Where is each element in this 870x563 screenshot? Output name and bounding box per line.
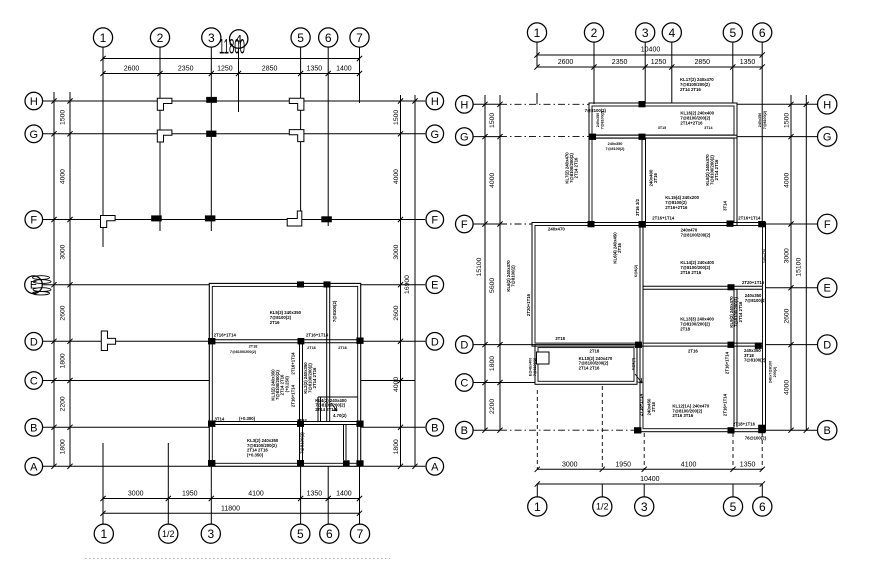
column (2,G) filled rp — [589, 134, 596, 140]
svg-text:2T16: 2T16 — [653, 172, 658, 182]
svg-text:6: 6 — [759, 26, 766, 40]
column (2,F) filled rp — [588, 221, 595, 227]
column (3,A) filled — [208, 460, 215, 466]
svg-text:H: H — [823, 99, 831, 111]
svg-text:2600: 2600 — [393, 305, 400, 320]
svg-text:2T20+1T16: 2T20+1T16 — [742, 280, 765, 285]
svg-text:E: E — [824, 283, 831, 295]
column (3,F) filled rp — [639, 221, 646, 228]
column (5,D) filled — [298, 338, 305, 344]
bottom dim line (right plan) — [537, 468, 762, 470]
grid line 1/2 bottom (left plan) — [167, 443, 169, 524]
row bubble G (left plan right) — [426, 125, 444, 143]
row line F dashed (right plan) — [473, 223, 500, 225]
svg-text:1400: 1400 — [336, 66, 352, 73]
row bubble C (left plan left) — [25, 372, 43, 390]
svg-text:7@8100(2): 7@8100(2) — [601, 110, 605, 129]
grid bubble 1 (right plan top) — [527, 23, 546, 42]
svg-text:2850: 2850 — [262, 66, 278, 73]
svg-text:2200: 2200 — [60, 396, 67, 411]
row bubble D (right plan left) — [456, 336, 474, 354]
svg-text:C: C — [460, 378, 468, 390]
row line H (left plan) — [43, 100, 426, 102]
svg-text:76@100(2): 76@100(2) — [745, 436, 767, 441]
row bubble E with scribble (left plan left) — [25, 276, 43, 294]
svg-text:E@4bx400: E@4bx400 — [529, 358, 533, 377]
svg-text:11800: 11800 — [221, 505, 240, 512]
column (5,D) filled rp — [728, 342, 735, 348]
column (2,H) L-shape — [157, 98, 172, 110]
left building interior wall B-A at grid6 — [343, 425, 345, 461]
column (6,E) filled — [324, 281, 331, 287]
svg-text:4000: 4000 — [393, 377, 400, 392]
left dim chain lines (right plan) — [484, 95, 486, 430]
svg-text:2: 2 — [157, 31, 164, 45]
svg-text:4.70(2): 4.70(2) — [333, 413, 347, 418]
row bubble H (right plan left) — [456, 96, 474, 114]
svg-text:3: 3 — [207, 527, 214, 541]
svg-text:5: 5 — [297, 527, 304, 541]
svg-text:2350: 2350 — [612, 59, 628, 66]
grid line 6 bottom (left plan) — [327, 466, 329, 524]
svg-text:7@8100(2): 7@8100(2) — [744, 358, 766, 363]
svg-text:2T16+1T14: 2T16+1T14 — [291, 384, 296, 407]
svg-text:3: 3 — [208, 31, 215, 45]
grid line 1 top (right plan) — [536, 42, 538, 67]
svg-text:6@8(2): 6@8(2) — [634, 264, 638, 277]
svg-text:2T16: 2T16 — [617, 242, 622, 252]
top dim line (right plan) — [537, 54, 762, 56]
svg-text:G: G — [30, 129, 39, 141]
grid bubble 7 (left plan top) — [350, 28, 369, 47]
column (6,B) filled rp — [758, 425, 765, 434]
row bubble F (left plan right) — [426, 211, 444, 229]
grid bubble 5 (left plan top) — [291, 28, 310, 47]
column (3,G) filled rp — [639, 134, 646, 140]
grid line 1/2 bottom dashed (right plan) — [601, 386, 603, 469]
hollow column (D-C wing) — [537, 352, 550, 364]
row line D (left plan) — [43, 340, 210, 342]
section arrow (left building) — [331, 403, 337, 411]
svg-text:4: 4 — [668, 26, 675, 40]
column (3,H) filled — [206, 97, 217, 103]
svg-text:7@8100(2): 7@8100(2) — [606, 147, 626, 151]
svg-text:H: H — [431, 96, 439, 108]
left building interior wall D row — [212, 339, 357, 341]
grid bubble 7 (left plan bottom) — [350, 524, 369, 543]
svg-text:1350: 1350 — [307, 66, 323, 73]
grid bubble 4 (left plan top) — [230, 30, 248, 48]
grid bubble 2 (left plan top) — [150, 28, 169, 47]
grid line 7 (left plan) — [359, 47, 361, 103]
svg-text:7@8100(2): 7@8100(2) — [745, 298, 767, 303]
grid bubble 3 (left plan bottom) — [201, 524, 220, 543]
svg-text:1250: 1250 — [217, 66, 233, 73]
column (6,D) filled rp — [755, 343, 762, 349]
column (5,F) filled rp — [727, 221, 734, 227]
row bubble D (left plan right) — [426, 333, 444, 351]
right building interior wall grid3 upper — [641, 138, 643, 222]
column (3,B) filled rp — [634, 427, 641, 433]
row line A (left plan) — [43, 465, 210, 467]
svg-text:A: A — [30, 461, 38, 473]
column (6,F) filled rp — [758, 221, 765, 227]
svg-text:1500: 1500 — [60, 110, 67, 125]
svg-text:F: F — [461, 219, 468, 231]
column (3,B) filled — [208, 421, 215, 427]
row bubble E (left plan right) — [426, 276, 444, 294]
grid bubble 1 (left plan top) — [93, 28, 112, 47]
grid bubble 6 (right plan bottom) — [753, 497, 772, 516]
column (3,H) filled rp — [639, 101, 646, 107]
svg-text:240x350: 240x350 — [758, 113, 762, 127]
svg-text:240x350: 240x350 — [596, 113, 600, 127]
top dim line (left plan) — [103, 58, 360, 60]
row line D (right plan) — [473, 344, 535, 346]
svg-text:2T16+2T16: 2T16+2T16 — [665, 205, 688, 210]
row line G dashed (right plan) — [473, 136, 500, 138]
svg-text:4000: 4000 — [784, 173, 791, 188]
svg-text:(+0.300): (+0.300) — [239, 416, 256, 421]
row line B (left plan) — [43, 426, 210, 428]
svg-text:5: 5 — [297, 31, 304, 45]
svg-text:6: 6 — [326, 527, 333, 541]
grid bubble 5 (right plan bottom) — [723, 497, 742, 516]
svg-text:2T16 3T16: 2T16 3T16 — [672, 413, 693, 418]
svg-text:1250: 1250 — [651, 59, 667, 66]
svg-text:2850: 2850 — [695, 59, 711, 66]
svg-text:2600: 2600 — [124, 66, 140, 73]
svg-text:B: B — [824, 425, 831, 437]
svg-text:D: D — [460, 340, 468, 352]
right dim chain lines (right plan) — [790, 95, 792, 430]
grid line 5 bottom dashed (right plan) — [732, 433, 734, 469]
svg-text:7@8100/200(2): 7@8100/200(2) — [230, 350, 257, 354]
column (3,F) filled — [205, 215, 216, 221]
svg-text:3000: 3000 — [562, 461, 578, 468]
grid line 3 bottom (left plan) — [210, 466, 212, 524]
row bubble D (right plan right) — [818, 335, 837, 354]
left building interior wall small room — [317, 397, 319, 422]
svg-text:6: 6 — [325, 31, 332, 45]
grid line 6 top (right plan) — [761, 42, 763, 224]
svg-text:24bx7@8100: 24bx7@8100 — [769, 361, 773, 383]
grid bubble 1/2 (right plan bottom) — [593, 497, 612, 516]
svg-text:2: 2 — [591, 26, 598, 40]
svg-text:6: 6 — [759, 500, 766, 514]
left building outer wall — [209, 283, 360, 466]
svg-text:2T16: 2T16 — [270, 320, 280, 325]
svg-text:2T16+1T14: 2T16+1T14 — [725, 351, 730, 374]
right building F-D left wing wall — [532, 223, 643, 347]
row line B dashed (right plan) — [473, 429, 500, 431]
svg-text:2T14 2T16: 2T14 2T16 — [680, 87, 701, 92]
grid bubble 3 (right plan bottom) — [635, 497, 654, 516]
svg-text:240x470: 240x470 — [763, 249, 767, 263]
grid line 5 top (right plan) — [732, 42, 734, 103]
svg-text:7@8100(2): 7@8100(2) — [300, 432, 305, 454]
column (6,F) filled — [321, 216, 332, 222]
svg-text:7@8100/200(2): 7@8100/200(2) — [681, 232, 711, 237]
svg-text:B: B — [461, 425, 468, 437]
svg-text:(+0.350): (+0.350) — [247, 452, 264, 457]
svg-text:1950: 1950 — [182, 491, 198, 498]
svg-text:(+0.250): (+0.250) — [285, 376, 290, 393]
row line G right (right plan) — [737, 136, 818, 138]
bubble stubs bottom (right plan) — [536, 484, 538, 497]
grid bubble 3 (right plan top) — [636, 23, 655, 42]
row bubble F (right plan right) — [818, 214, 837, 233]
svg-text:6@8(2): 6@8(2) — [632, 357, 636, 370]
svg-text:15100: 15100 — [476, 257, 483, 276]
svg-text:4100: 4100 — [681, 461, 697, 468]
column (5,A) filled — [297, 460, 304, 466]
svg-text:1500: 1500 — [489, 113, 496, 128]
column (5,E) filled rp — [728, 284, 735, 290]
svg-text:240x470: 240x470 — [548, 227, 565, 232]
grid bubble 2 (right plan top) — [584, 23, 603, 42]
column (5,B) filled rp — [728, 427, 735, 433]
svg-text:1: 1 — [100, 31, 107, 45]
svg-text:1/2: 1/2 — [162, 529, 175, 539]
svg-text:C: C — [30, 376, 38, 388]
svg-text:4100: 4100 — [248, 491, 264, 498]
svg-text:2600: 2600 — [558, 59, 574, 66]
row line F (left plan) — [43, 219, 426, 221]
row bubble G (right plan right) — [818, 127, 837, 146]
grid line 3 top (right plan) — [644, 42, 646, 103]
svg-text:11800: 11800 — [219, 35, 245, 59]
column (6,A) filled — [343, 460, 350, 466]
column (5,E) filled — [297, 281, 304, 287]
row bubble B (right plan right) — [818, 421, 837, 440]
svg-text:G: G — [460, 132, 469, 144]
grid line 5 (left plan) — [300, 47, 302, 226]
bottom dim line (left plan) — [103, 498, 360, 500]
grid bubble 6 (left plan bottom) — [320, 524, 339, 543]
svg-text:D: D — [30, 336, 38, 348]
column (7,B) filled — [356, 421, 363, 427]
svg-text:F: F — [824, 219, 831, 231]
grid line 4 (left plan) — [238, 48, 240, 112]
svg-text:H: H — [30, 96, 38, 108]
svg-text:F: F — [30, 215, 37, 227]
svg-text:7: 7 — [357, 527, 364, 541]
svg-text:3T14: 3T14 — [704, 126, 712, 130]
row bubble B (left plan left) — [25, 419, 43, 437]
row bubble G (left plan left) — [25, 125, 43, 143]
svg-text:2T14 2T16: 2T14 2T16 — [579, 365, 600, 370]
row bubble F (left plan left) — [25, 211, 43, 229]
svg-text:1350: 1350 — [740, 59, 756, 66]
grid line 2 (left plan) — [159, 47, 161, 231]
svg-text:2350: 2350 — [178, 66, 194, 73]
svg-text:2600: 2600 — [784, 308, 791, 323]
grid bubble 3 (left plan top) — [202, 28, 221, 47]
svg-text:2T14 2T16: 2T14 2T16 — [738, 301, 743, 322]
grid bubble 5 (right plan top) — [723, 23, 742, 42]
row bubble H (left plan left) — [25, 92, 43, 110]
svg-text:10400: 10400 — [640, 476, 660, 483]
svg-text:2T18: 2T18 — [590, 349, 600, 354]
svg-text:2T18: 2T18 — [680, 327, 690, 332]
grid line 2 top (right plan) — [593, 42, 595, 104]
grid line 4 top (right plan) — [671, 42, 673, 103]
svg-text:2T16+1T14: 2T16+1T14 — [214, 332, 237, 337]
svg-text:3: 3 — [641, 500, 648, 514]
svg-text:10400: 10400 — [641, 47, 661, 54]
row line H right (right plan) — [737, 103, 818, 105]
row bubble A (left plan right) — [426, 458, 444, 476]
column (7,D) filled — [356, 338, 363, 344]
left building interior wall B row — [212, 421, 357, 423]
svg-text:1800: 1800 — [60, 439, 67, 454]
svg-text:H: H — [460, 99, 468, 111]
column (1,D) T-shape — [101, 331, 115, 351]
grid line 7 bottom (left plan) — [359, 466, 361, 524]
column (5,B) filled — [297, 421, 304, 427]
svg-text:1400: 1400 — [336, 491, 352, 498]
svg-text:200(2): 200(2) — [773, 366, 777, 377]
right building interior wall x735 — [733, 289, 735, 427]
row line E (left plan) — [42, 284, 209, 286]
grid line 3 bottom dashed (right plan) — [643, 433, 645, 469]
svg-text:2T16: 2T16 — [338, 346, 347, 350]
svg-text:2T16+1T14: 2T16+1T14 — [639, 393, 644, 416]
svg-text:1350: 1350 — [740, 461, 756, 468]
svg-text:1: 1 — [534, 500, 541, 514]
row line C (left plan) — [43, 380, 210, 382]
svg-text:16900: 16900 — [404, 275, 411, 294]
right building D-C wing wall — [535, 345, 637, 385]
svg-text:1: 1 — [100, 527, 107, 541]
row line G (left plan) — [43, 133, 426, 135]
row bubble H (left plan right) — [426, 92, 444, 110]
grid bubble 1 (left plan bottom) — [94, 524, 113, 543]
svg-text:2T14+2T16: 2T14+2T16 — [680, 121, 703, 126]
column (5,H) L-shape — [289, 98, 304, 110]
svg-text:3T15: 3T15 — [658, 126, 666, 130]
svg-text:2T14 2T16: 2T14 2T16 — [574, 157, 579, 178]
row bubble G (right plan left) — [456, 128, 474, 146]
grid line 1 (left plan) — [102, 47, 104, 73]
grid bubble 1/2 (left plan bottom) — [159, 524, 178, 543]
row line D right (right plan) — [766, 344, 818, 346]
column (2,G) L-shape — [157, 130, 172, 142]
row bubble D (left plan left) — [25, 333, 43, 351]
svg-text:3T14: 3T14 — [215, 416, 225, 421]
svg-text:2600: 2600 — [60, 305, 67, 320]
svg-text:2T16+1T14: 2T16+1T14 — [291, 352, 296, 375]
svg-text:7@8100(2): 7@8100(2) — [533, 357, 537, 376]
row line B right (right plan) — [766, 429, 818, 431]
svg-text:2T18: 2T18 — [249, 345, 258, 349]
svg-text:2T16 2T16: 2T16 2T16 — [680, 270, 701, 275]
svg-text:4000: 4000 — [60, 169, 67, 184]
row bubble F (right plan left) — [456, 215, 474, 233]
svg-text:7@8100(2): 7@8100(2) — [511, 265, 516, 287]
svg-text:D: D — [431, 336, 439, 348]
row bubble B (left plan right) — [426, 419, 444, 437]
svg-text:5: 5 — [730, 500, 737, 514]
right building main lower block wall — [640, 223, 766, 432]
column (1,F) L-shape — [101, 216, 116, 228]
svg-text:2T18+1T16: 2T18+1T16 — [733, 422, 756, 427]
svg-text:G: G — [431, 129, 440, 141]
right building interior wall E row — [643, 285, 763, 287]
svg-text:1800: 1800 — [489, 356, 496, 371]
column (5,F) L-shape — [287, 211, 302, 226]
svg-text:7: 7 — [356, 31, 363, 45]
column (3,D) filled — [208, 338, 215, 344]
svg-text:2T16+1T14: 2T16+1T14 — [652, 215, 675, 220]
svg-text:7@8100(2): 7@8100(2) — [332, 300, 337, 322]
svg-text:3000: 3000 — [128, 491, 144, 498]
svg-text:B: B — [431, 422, 438, 434]
svg-text:2T16+1T14: 2T16+1T14 — [723, 393, 728, 416]
row line E right (right plan) — [766, 287, 818, 289]
svg-text:G: G — [823, 132, 832, 144]
svg-text:3T14: 3T14 — [723, 200, 728, 210]
left dim chain lines (left plan) — [53, 92, 55, 466]
grid line 1 bottom dashed (right plan) — [536, 390, 538, 469]
svg-text:3T24: 3T24 — [297, 418, 307, 423]
svg-text:1500: 1500 — [393, 110, 400, 125]
grid line 3 (left plan) — [210, 47, 212, 231]
svg-text:2T18: 2T18 — [651, 401, 656, 411]
svg-text:B: B — [30, 422, 37, 434]
svg-text:4000: 4000 — [489, 173, 496, 188]
grid line 6 bottom dashed (right plan) — [761, 433, 763, 469]
grid bubble 6 (right plan top) — [753, 23, 772, 42]
right building interior wall D row — [643, 342, 763, 344]
svg-text:3T18: 3T18 — [555, 336, 565, 341]
row line C (right plan) — [473, 382, 535, 384]
left building interior wall grid5 — [299, 343, 301, 464]
svg-text:1800: 1800 — [393, 439, 400, 454]
left building interior wall grid6 — [326, 286, 328, 421]
svg-text:2T16: 2T16 — [307, 346, 316, 350]
svg-text:3000: 3000 — [60, 244, 67, 259]
column (3,D) filled rp — [635, 342, 642, 348]
faint dotted line (page bottom) — [85, 558, 390, 560]
section arrow (right building) — [635, 374, 642, 383]
right building H-G band wall — [589, 103, 737, 138]
svg-text:3: 3 — [642, 26, 649, 40]
row line H dashed (right plan) — [473, 103, 500, 105]
svg-text:2T14 2T18: 2T14 2T18 — [315, 407, 336, 412]
svg-text:1/2: 1/2 — [596, 502, 609, 512]
grid bubble 4 (right plan top) — [662, 23, 681, 42]
svg-text:2200: 2200 — [489, 399, 496, 414]
grid bubble 1 (right plan bottom) — [528, 497, 547, 516]
grid bubble 6 (left plan top) — [319, 28, 338, 47]
row line F right (right plan) — [766, 223, 818, 225]
svg-text:1800: 1800 — [60, 353, 67, 368]
svg-text:A: A — [431, 461, 439, 473]
right building G-F block wall — [589, 135, 737, 225]
grid line 1 bottom (left plan) — [102, 443, 104, 524]
svg-text:1: 1 — [534, 26, 541, 40]
svg-text:4000: 4000 — [393, 169, 400, 184]
svg-text:D: D — [823, 340, 831, 352]
svg-text:1500: 1500 — [784, 113, 791, 128]
svg-text:2T16+1T14: 2T16+1T14 — [738, 215, 761, 220]
row bubble E (right plan right) — [818, 278, 837, 297]
svg-text:2T16+1T14: 2T16+1T14 — [306, 332, 329, 337]
row bubble A (left plan left) — [25, 458, 43, 476]
column (5,G) L-shape — [289, 130, 304, 142]
